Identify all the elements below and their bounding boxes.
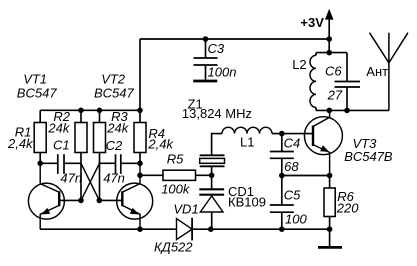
wire VT3 emitter to R6 <box>329 176 331 189</box>
node R4 top <box>137 108 143 114</box>
svg-text:24k: 24k <box>47 121 70 136</box>
node ground <box>327 226 333 232</box>
svg-text:100: 100 <box>285 211 307 226</box>
wire left riser from top rail to resistor rail <box>139 39 141 110</box>
node R1 bottom <box>37 161 43 167</box>
capacitor C4 <box>270 152 294 159</box>
svg-text:220: 220 <box>336 201 359 216</box>
node VT2 base <box>97 198 103 204</box>
wire C1 left lead from R1 node <box>40 162 57 164</box>
capacitor C1 <box>58 154 64 174</box>
wire C1 right lead <box>64 162 81 164</box>
varicap CD1 <box>199 189 224 229</box>
wire C5 top lead <box>281 176 283 206</box>
crystal Z1 <box>200 155 225 166</box>
antenna <box>370 33 408 111</box>
node R5 right <box>209 173 215 179</box>
capacitor C2 <box>116 154 121 174</box>
svg-text:47n: 47n <box>60 171 82 186</box>
node C3 on rail <box>203 36 209 42</box>
svg-text:L2: L2 <box>292 57 306 72</box>
ground at bottom right <box>318 229 342 247</box>
wire C2 left lead <box>100 162 116 164</box>
capacitor C5 <box>270 205 294 212</box>
node L1/C4/VT3 base <box>279 131 285 137</box>
+3V arrow <box>325 9 334 20</box>
svg-text:2,4k: 2,4k <box>7 136 34 151</box>
ground under C3 <box>193 80 217 83</box>
resistor R1 <box>34 123 46 153</box>
wire R5 left lead <box>140 174 163 176</box>
node 68 <box>279 173 285 179</box>
svg-text:VD1: VD1 <box>173 202 198 217</box>
svg-text:+3V: +3V <box>300 15 324 30</box>
wire R4 top lead <box>139 110 141 122</box>
wire top +3V rail <box>140 38 329 40</box>
svg-text:47n: 47n <box>103 171 125 186</box>
inductor L1 <box>222 127 272 133</box>
svg-text:VT2: VT2 <box>101 72 126 87</box>
svg-text:100n: 100n <box>208 64 237 79</box>
node VT3 collector tank <box>327 108 333 114</box>
svg-text:2,4k: 2,4k <box>147 136 174 151</box>
transistor VT3 <box>304 110 342 175</box>
wire C2 right lead <box>121 162 140 164</box>
wire tank bottom / antenna feed <box>316 109 389 111</box>
wire +3V node down to tank <box>328 39 330 53</box>
node C5 on rail <box>279 226 285 232</box>
node emitter/68 wire <box>327 173 333 179</box>
svg-text:Ант: Ант <box>366 64 388 79</box>
wire C5 bottom lead <box>281 212 283 229</box>
node R5 left <box>137 173 143 179</box>
svg-text:27: 27 <box>327 88 343 103</box>
wire diagonal C1 to VT2 base <box>81 163 99 200</box>
capacitor C6 <box>335 53 361 111</box>
svg-text:BC547: BC547 <box>17 86 58 101</box>
node +3V on rail <box>326 36 332 42</box>
node R2 top <box>78 108 84 114</box>
transistor VT1 <box>28 163 64 229</box>
wire crystal bottom to CD1 <box>211 166 213 189</box>
wire R2 top lead <box>80 110 82 122</box>
wire R5 right lead <box>196 174 212 176</box>
wire diagonal C2 to VT1 base <box>81 163 100 200</box>
svg-text:C1: C1 <box>53 137 70 152</box>
svg-text:100k: 100k <box>161 182 191 197</box>
wire +3V riser and node <box>328 18 330 40</box>
node tank top <box>326 50 332 56</box>
wire R6 bottom lead <box>329 217 331 230</box>
wire R3 bottom lead down to VT2 base node <box>99 153 101 201</box>
wire VT2 base <box>99 199 122 201</box>
wire R1 bottom lead <box>39 153 41 164</box>
wire R3 top lead <box>99 110 101 122</box>
wire 68-node to emitter line <box>282 175 330 177</box>
svg-text:C4: C4 <box>284 136 301 151</box>
resistor R5 <box>163 170 196 180</box>
node C6 bottom <box>344 108 350 114</box>
svg-text:13,824 MHz: 13,824 MHz <box>182 106 252 121</box>
svg-text:C5: C5 <box>284 187 301 202</box>
wire bottom rail right (VD1 to ground) <box>192 228 330 230</box>
wire R2 bottom lead down to VT1 base node <box>80 153 82 201</box>
wire C4 column top <box>281 134 283 152</box>
node VT2 emitter on rail <box>137 226 143 232</box>
svg-text:C2: C2 <box>106 138 123 153</box>
capacitor C3 <box>194 39 218 80</box>
svg-text:68: 68 <box>284 159 299 174</box>
resistor R3 <box>94 123 106 153</box>
svg-text:R5: R5 <box>167 152 184 167</box>
svg-text:КД522: КД522 <box>154 239 193 254</box>
node VT1 base <box>78 198 84 204</box>
wire R1 top lead <box>39 110 41 122</box>
diode VD1 <box>177 218 193 241</box>
node R4 bottom <box>137 161 143 167</box>
wire crystal top to L1 <box>212 134 222 156</box>
wire C4 to 68-node <box>281 158 283 175</box>
svg-text:VT1: VT1 <box>23 72 47 87</box>
wire L1 to VT3 base <box>272 133 313 135</box>
svg-text:C3: C3 <box>208 41 225 56</box>
wire bottom rail left (emitters to VD1) <box>40 228 176 230</box>
wire R4 bottom lead <box>139 153 141 164</box>
resistor R6 <box>324 188 335 217</box>
svg-text:24k: 24k <box>106 121 129 136</box>
node CD1 on rail <box>208 226 214 232</box>
svg-text:BC547B: BC547B <box>344 149 393 164</box>
transistor VT2 <box>117 163 153 229</box>
wire tank top <box>316 52 347 54</box>
wire VT1 base <box>59 199 81 201</box>
inductor L2 <box>310 53 316 111</box>
svg-text:BC547: BC547 <box>94 86 135 101</box>
svg-text:КВ109: КВ109 <box>228 195 266 210</box>
resistor R2 <box>75 123 87 153</box>
svg-text:C6: C6 <box>325 63 342 78</box>
wire resistor top rail <box>40 109 140 111</box>
svg-text:L1: L1 <box>240 134 254 149</box>
resistor R4 <box>134 123 146 153</box>
node R3 top <box>97 108 103 114</box>
